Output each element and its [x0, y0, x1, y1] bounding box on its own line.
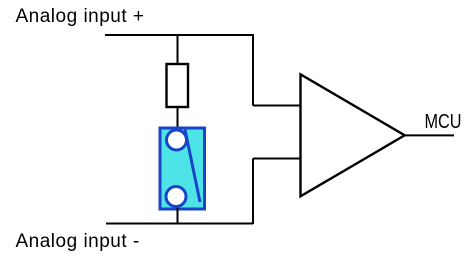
svg-text:Analog input +: Analog input + [16, 6, 145, 27]
wire: vertical from top wire down to op-amp U1 + input [252, 35, 254, 106]
wire: bottom horizontal (Analog input -) [106, 223, 253, 225]
switch S1 bottom contact [166, 187, 186, 207]
wire: switch S1 bottom to bottom horizontal wire [177, 205, 179, 224]
wire: op-amp U1 upper input horizontal [253, 105, 300, 107]
svg-text:MCU: MCU [425, 111, 462, 133]
wire: top horizontal (Analog input +) [105, 34, 254, 36]
resistor R1 [167, 64, 189, 107]
svg-text:Analog input -: Analog input - [16, 231, 140, 252]
switch S1 top contact [167, 130, 187, 150]
switch S1 lever (open blade) [185, 130, 200, 203]
switch S1 body (open switch in highlighted box) [160, 128, 205, 209]
wire: vertical from op-amp U1 - input down to bottom wire [252, 159, 254, 225]
wire: junction drop from top wire to resistor R1 top [177, 34, 179, 64]
wire: op-amp U1 lower input horizontal [253, 158, 300, 160]
wire: resistor R1 bottom to switch S1 top [177, 106, 179, 131]
wire: op-amp U1 output to MCU [404, 134, 454, 136]
op-amp U1 (amplifier triangle) [301, 74, 405, 196]
